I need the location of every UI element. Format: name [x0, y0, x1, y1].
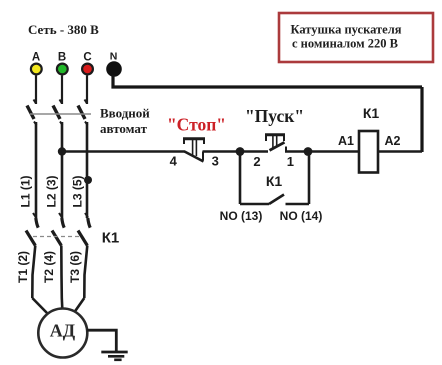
phase B indicator	[57, 51, 68, 74]
contactor K1 main pole 3	[78, 213, 90, 298]
phase A indicator	[31, 51, 42, 74]
K1 aux contact NO (self-hold)	[240, 152, 309, 205]
node: dot on L3	[84, 176, 92, 184]
contactor linkage dashed bar	[33, 236, 81, 238]
svg-text:"Стоп": "Стоп"	[167, 114, 226, 134]
svg-text:4: 4	[170, 154, 178, 169]
svg-text:L3 (5): L3 (5)	[71, 175, 85, 207]
label "Вводной автомат"	[100, 106, 150, 137]
wire phase C drop	[86, 76, 88, 105]
wire coil A2 to N riser	[378, 150, 422, 153]
note box: Катушка пускателя с номиналом 220 В	[279, 13, 433, 62]
svg-text:C: C	[83, 51, 91, 63]
wire phase A drop	[35, 76, 37, 105]
svg-text:Сеть - 380 В: Сеть - 380 В	[28, 22, 99, 37]
wire to coil A1	[308, 150, 359, 153]
wire stop to start	[203, 150, 241, 153]
node: control tap junction on L2	[58, 147, 66, 155]
svg-text:2: 2	[253, 154, 260, 169]
neutral N indicator	[106, 51, 122, 77]
breaker QF pole 3	[78, 100, 88, 219]
svg-text:A1: A1	[338, 134, 354, 148]
svg-text:T1 (2): T1 (2)	[16, 251, 30, 283]
svg-text:с номиналом 220 В: с номиналом 220 В	[292, 37, 398, 51]
svg-text:К1: К1	[102, 230, 120, 247]
contactor K1 main pole 1	[26, 213, 38, 298]
svg-text:A: A	[32, 51, 40, 63]
contactor K1 main pole 2	[52, 213, 64, 298]
svg-text:автомат: автомат	[100, 121, 148, 136]
svg-text:NO (14): NO (14)	[280, 209, 323, 223]
svg-text:NO (13): NO (13)	[220, 209, 263, 223]
breaker QF pole 1	[27, 100, 37, 219]
wire motor to ground	[87, 330, 116, 351]
coil K1	[359, 131, 378, 173]
wire T3 to motor	[75, 298, 85, 312]
wire N to bus	[113, 75, 422, 87]
node junction right of start	[304, 147, 313, 156]
wire T1 to motor	[32, 298, 47, 314]
svg-text:N: N	[110, 51, 118, 63]
svg-text:АД: АД	[50, 321, 76, 341]
node junction left of start	[236, 147, 245, 156]
svg-text:"Пуск": "Пуск"	[245, 106, 304, 126]
svg-text:T3 (6): T3 (6)	[68, 251, 82, 283]
svg-text:Вводной: Вводной	[100, 106, 150, 121]
svg-text:B: B	[58, 51, 66, 63]
breaker linkage bar	[30, 113, 91, 115]
svg-text:К1: К1	[363, 105, 380, 121]
start button SB2 (NO)	[240, 134, 308, 152]
phase C indicator	[82, 51, 93, 74]
wire phase B drop	[61, 76, 63, 105]
svg-text:L1 (1): L1 (1)	[19, 175, 33, 207]
motor AD	[38, 309, 87, 358]
breaker QF pole 2	[53, 100, 63, 219]
svg-text:К1: К1	[266, 173, 283, 189]
svg-text:3: 3	[212, 154, 219, 169]
wire T2 to motor	[60, 298, 63, 309]
svg-text:T2 (4): T2 (4)	[42, 251, 56, 283]
stop button SB1 (NC)	[183, 138, 205, 162]
wire N bus riser to coil A2	[420, 87, 423, 152]
svg-text:L2 (3): L2 (3)	[45, 175, 59, 207]
svg-text:1: 1	[287, 154, 294, 169]
wire control feed to stop button	[62, 150, 185, 153]
ground	[101, 352, 127, 360]
svg-text:Катушка пускателя: Катушка пускателя	[290, 23, 401, 37]
svg-text:A2: A2	[385, 134, 401, 148]
